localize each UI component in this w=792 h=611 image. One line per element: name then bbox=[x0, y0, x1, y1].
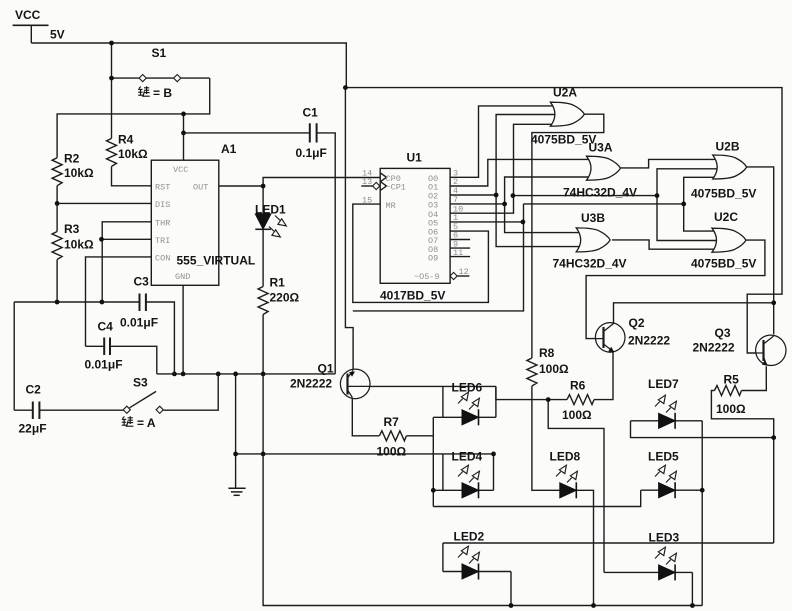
wire: R7 node down to LED4 row bbox=[432, 436, 434, 507]
svg-text:U2C: U2C bbox=[714, 210, 738, 224]
LED LED5 bbox=[659, 482, 676, 498]
wire: LED1 anode bbox=[262, 186, 264, 214]
wire: U2B output down right edge bbox=[747, 167, 774, 334]
resistor R4 bbox=[107, 138, 117, 166]
svg-text:S1: S1 bbox=[152, 46, 167, 60]
node junction Q2 collector / U2B output bbox=[771, 300, 776, 305]
capacitor C2 bbox=[32, 402, 34, 420]
wire: ground stem bbox=[235, 374, 237, 488]
wire: C2 to S3 bbox=[39, 409, 123, 411]
wire: LED7 anode drop and under-rail bbox=[631, 421, 774, 438]
svg-text:100Ω: 100Ω bbox=[377, 445, 407, 459]
svg-text:VCC: VCC bbox=[173, 165, 188, 175]
wire: LED4 diode row bbox=[433, 489, 493, 491]
node junction 555 OUT node bbox=[261, 184, 266, 189]
label key=B bbox=[138, 86, 150, 96]
wire: Q1 emitter to R7 bbox=[352, 398, 379, 436]
svg-text:22μF: 22μF bbox=[19, 422, 47, 436]
wire: R6 junction down to LED3 feed bbox=[548, 400, 604, 573]
svg-text:220Ω: 220Ω bbox=[270, 291, 300, 305]
wire: mid ground rail y=373.9 bbox=[157, 373, 335, 375]
wire: OUT pin bbox=[219, 185, 263, 187]
svg-text:MR: MR bbox=[386, 201, 396, 211]
op-amp/timer A1 555 box bbox=[151, 160, 219, 285]
wire: 555 GND pin down bbox=[182, 285, 184, 374]
pin 15 MR wire loop from O6 bbox=[353, 204, 489, 302]
node junction 555 VCC / C1 bbox=[181, 131, 186, 136]
wire: C4 left bbox=[86, 345, 105, 347]
svg-text:Q3: Q3 bbox=[715, 326, 731, 340]
node junction O4 net riser bbox=[511, 193, 516, 198]
node junction THR leg to C3 rail bbox=[100, 300, 105, 305]
node junction O5 net to U2B/U2C bbox=[681, 202, 686, 207]
wire: O1 to U3A in1 bbox=[450, 159, 591, 186]
wire R3 down to C3 rail bbox=[56, 260, 58, 303]
svg-text:U2B: U2B bbox=[716, 140, 740, 154]
svg-text:C2: C2 bbox=[26, 383, 42, 397]
node junction O2 net bbox=[494, 193, 499, 198]
OR gate U3A bbox=[587, 156, 621, 180]
svg-text:~O5-9: ~O5-9 bbox=[414, 272, 440, 282]
resistor R3 bbox=[52, 232, 62, 260]
wire: top VCC rail y=43 bbox=[31, 43, 346, 88]
svg-text:15: 15 bbox=[362, 195, 372, 205]
capacitor C4 bbox=[103, 338, 105, 356]
wire: LED7 diode row bbox=[631, 420, 703, 422]
svg-text:R5: R5 bbox=[724, 373, 740, 387]
LED LED4 bbox=[462, 482, 479, 498]
svg-text:4075BD_5V: 4075BD_5V bbox=[691, 187, 756, 201]
LED LED8 bbox=[560, 482, 577, 498]
node junction 555 GND on ground rail bbox=[181, 372, 186, 377]
svg-text:GND: GND bbox=[175, 272, 190, 282]
wire: R5 left big loop bbox=[711, 391, 773, 544]
node junction LED4 row feed bbox=[431, 488, 436, 493]
wire: S1 feed from VCC rail bbox=[111, 43, 113, 138]
node junction VCC top rail / S1 feed bbox=[109, 41, 114, 46]
node junction LED5 cathode bbox=[700, 488, 705, 493]
wire: mid rail y=454 bbox=[236, 453, 494, 455]
svg-text:11: 11 bbox=[453, 248, 463, 258]
node junction ground stem on rail bbox=[233, 372, 238, 377]
wire: 555 VCC feed bbox=[183, 114, 185, 160]
wire: S3 right to gnd rail bbox=[163, 374, 218, 410]
wire: O5 net to U2B in3 / U2C in1 bbox=[684, 177, 717, 204]
svg-text:CON: CON bbox=[155, 254, 170, 264]
svg-text:U3B: U3B bbox=[581, 211, 605, 225]
wire: LED5 diode row bbox=[641, 489, 703, 491]
VCC power symbol bbox=[13, 24, 49, 26]
wire: O2 to U2A in2 bbox=[450, 115, 555, 196]
clock input arrows CP0 / ~CP1 bbox=[380, 173, 386, 182]
resistor R1 bbox=[258, 287, 268, 315]
wire: U3B output to U2C in3 bbox=[612, 240, 717, 249]
svg-text:R6: R6 bbox=[570, 379, 586, 393]
svg-text:TRI: TRI bbox=[155, 236, 170, 246]
resistor R7 bbox=[379, 431, 406, 441]
svg-text:74HC32D_4V: 74HC32D_4V bbox=[553, 257, 627, 271]
resistor R2 bbox=[56, 157, 58, 159]
svg-text:555_VIRTUAL: 555_VIRTUAL bbox=[177, 254, 256, 268]
svg-text:S3: S3 bbox=[133, 376, 148, 390]
wire: top-right long rail y=87.5 bbox=[345, 88, 782, 353]
svg-text:100Ω: 100Ω bbox=[716, 402, 746, 416]
capacitor C1 bbox=[309, 123, 311, 142]
svg-text:DIS: DIS bbox=[155, 200, 170, 210]
wire: U2C output to Q2 base bbox=[586, 240, 765, 339]
pin 12 ~O5-9 stub with bubble bbox=[450, 272, 457, 279]
svg-text:13: 13 bbox=[362, 177, 372, 187]
svg-text:10kΩ: 10kΩ bbox=[64, 166, 94, 180]
svg-text:LED8: LED8 bbox=[550, 450, 581, 464]
node junction R3 to C3 rail bbox=[55, 300, 60, 305]
svg-text:LED6: LED6 bbox=[452, 381, 483, 395]
wire: left drop to C2 bbox=[13, 302, 15, 410]
wire: Q1 base to LED6 row bbox=[370, 385, 496, 387]
node junction LED3 cathode on bottom rail bbox=[690, 603, 695, 608]
wire: R8 down to LED8 bbox=[532, 386, 560, 490]
svg-text:0.01μF: 0.01μF bbox=[85, 358, 123, 372]
node junction LED7 return on R5 loop bbox=[771, 435, 776, 440]
ground bbox=[228, 487, 245, 489]
svg-text:Q2: Q2 bbox=[629, 316, 645, 330]
wire: C2 left bbox=[14, 409, 33, 411]
IC U1 4017 box bbox=[380, 168, 450, 283]
node junction LED1/R1 leg on ground rail bbox=[261, 372, 266, 377]
wire: LED2 cathode down to bottom rail bbox=[510, 572, 512, 606]
svg-text:74HC32D_4V: 74HC32D_4V bbox=[563, 186, 637, 200]
switch S1 line and contacts bbox=[112, 77, 140, 79]
wire: O5 stub bbox=[450, 221, 523, 223]
node junction ground stem on mid rail bbox=[233, 452, 238, 457]
svg-text:4017BD_5V: 4017BD_5V bbox=[380, 289, 445, 303]
svg-text:A1: A1 bbox=[221, 142, 237, 156]
transistor Q1 2N2222 bbox=[340, 369, 370, 399]
wire: O4 net to U2B in2 / U2C in2 bbox=[657, 169, 717, 196]
label key=A bbox=[122, 416, 134, 426]
wire: S1 output loop bbox=[57, 78, 210, 158]
node junction S3 leg on ground rail bbox=[216, 372, 221, 377]
wire R2 to DIS node bbox=[56, 186, 58, 232]
svg-text:0.01μF: 0.01μF bbox=[120, 316, 158, 330]
node junction O3 net bbox=[502, 202, 507, 207]
wire: R7 right riser bbox=[406, 417, 433, 436]
wire: TRI pin bbox=[102, 238, 152, 240]
svg-text:U1: U1 bbox=[407, 151, 423, 165]
wire: O4 long net y=195.6 bbox=[514, 195, 658, 197]
wire: feed across to LED5 bbox=[433, 490, 640, 506]
wire: THR pin bbox=[102, 222, 151, 302]
svg-text:LED1: LED1 bbox=[255, 203, 286, 217]
wire: C3 rail y=302 bbox=[14, 301, 139, 303]
node junction O4 net to U2B/U2C bbox=[655, 193, 660, 198]
wire: Q2 collector rail bbox=[614, 303, 774, 323]
capacitor C3 bbox=[139, 294, 141, 312]
node junction LED2 cathode on bottom rail bbox=[509, 603, 514, 608]
svg-text:LED3: LED3 bbox=[649, 531, 680, 545]
wire: LED3 cathode down to bottom rail bbox=[691, 572, 693, 605]
node junction C3 leg on ground rail bbox=[172, 372, 177, 377]
node junction R1 leg on mid rail bbox=[261, 452, 266, 457]
LED LED2 bbox=[462, 564, 479, 580]
wire: Q3 emitter to R5 bbox=[742, 366, 767, 390]
svg-text:100Ω: 100Ω bbox=[562, 408, 592, 422]
node junction S1 contact feed bbox=[109, 76, 114, 81]
svg-text:OUT: OUT bbox=[193, 183, 208, 193]
svg-text:5V: 5V bbox=[50, 28, 65, 42]
wire: C1 left wire y=133 bbox=[184, 132, 310, 134]
svg-text:C3: C3 bbox=[134, 275, 150, 289]
wire: O5 long net y=203.9 to right bbox=[524, 203, 684, 205]
wire: C4 right to gnd rail bbox=[110, 346, 157, 374]
wire: O4 riser bbox=[450, 124, 555, 213]
node junction R2-R3 / DIS bbox=[55, 201, 60, 206]
node junction LED8 cathode on bottom rail bbox=[591, 603, 596, 608]
wire: OUT to CP0 bbox=[263, 178, 380, 187]
svg-text:R7: R7 bbox=[384, 415, 400, 429]
wire: C3 right leg to gnd rail bbox=[146, 302, 175, 374]
svg-text:R4: R4 bbox=[118, 133, 134, 147]
svg-text:U3A: U3A bbox=[589, 141, 613, 155]
wire: R6 left to LED6 block bbox=[496, 387, 567, 400]
svg-text:VCC: VCC bbox=[15, 8, 41, 22]
node junction S1 output / 555 VCC bbox=[181, 112, 186, 117]
node junction VCC branch to gates area bbox=[343, 85, 348, 90]
svg-text:O9: O9 bbox=[428, 253, 438, 263]
svg-text:R8: R8 bbox=[539, 346, 555, 360]
svg-text:2N2222: 2N2222 bbox=[693, 341, 735, 355]
svg-text:12: 12 bbox=[459, 267, 469, 277]
wire: U2A output to R8 bbox=[532, 114, 604, 358]
svg-text:THR: THR bbox=[155, 219, 170, 229]
wire: CON pin down to C4 bbox=[86, 257, 152, 346]
svg-text:R3: R3 bbox=[64, 222, 80, 236]
svg-text:4075BD_5V: 4075BD_5V bbox=[691, 257, 756, 271]
wire: LED8 cathode down to bottom rail bbox=[576, 490, 593, 605]
wire: O0 to U2A in1 bbox=[450, 106, 555, 177]
svg-text:100Ω: 100Ω bbox=[539, 362, 569, 376]
node junction THR-TRI tie bbox=[99, 237, 104, 242]
svg-text:= A: = A bbox=[137, 416, 156, 430]
svg-text:RST: RST bbox=[155, 183, 170, 193]
wire: U3A output to U2B in1 bbox=[621, 159, 717, 168]
svg-text:U2A: U2A bbox=[553, 86, 577, 100]
wire: R1 down through rails to bottom rail bbox=[263, 315, 702, 606]
wire: C1 right to lower rail bbox=[317, 133, 336, 374]
resistor R5 bbox=[715, 386, 742, 396]
pin stubs O7 O8 O9 bbox=[450, 239, 470, 241]
svg-text:C4: C4 bbox=[98, 320, 114, 334]
LED LED1 (pointing down) bbox=[255, 214, 271, 229]
OR gate U2A bbox=[550, 102, 584, 126]
switch S3 lever and contacts bbox=[123, 406, 130, 413]
svg-text:~CP1: ~CP1 bbox=[386, 183, 406, 193]
svg-text:LED5: LED5 bbox=[648, 450, 679, 464]
wire: LED3 diode row bbox=[604, 571, 692, 573]
svg-text:10kΩ: 10kΩ bbox=[64, 238, 94, 252]
wire: O5 net down to MR-area rail bbox=[353, 204, 524, 311]
wire: LED6 diode row bbox=[433, 416, 496, 418]
node junction LED4 tap on mid rail bbox=[491, 452, 496, 457]
wire: LED7 cathode down through LED5 to bottom rail bbox=[701, 421, 703, 606]
OR gate U2B bbox=[713, 155, 747, 179]
svg-text:2N2222: 2N2222 bbox=[628, 334, 670, 348]
LED LED6 bbox=[462, 409, 479, 425]
svg-text:= B: = B bbox=[153, 86, 172, 100]
OR gate U2C bbox=[712, 228, 746, 252]
resistor R8 (vertical) bbox=[527, 358, 537, 386]
wire: O2 branch down to U3B in2 bbox=[496, 195, 581, 247]
svg-text:LED2: LED2 bbox=[454, 530, 485, 544]
transistor Q2 2N2222 bbox=[595, 323, 625, 353]
LED LED3 bbox=[659, 564, 676, 580]
wire: LED1 cathode to R1 bbox=[262, 229, 264, 286]
svg-text:LED4: LED4 bbox=[452, 450, 483, 464]
wire: O3 branch down to U3B in1 bbox=[505, 204, 581, 233]
pin 13 ~CP1 stub with bubble bbox=[361, 185, 373, 187]
resistor R6 bbox=[567, 395, 594, 405]
svg-text:LED7: LED7 bbox=[648, 377, 679, 391]
wire: LED2 diode row bbox=[443, 571, 511, 573]
LED LED7 bbox=[659, 413, 676, 429]
wire: Q2 emitter to R6 bbox=[594, 352, 613, 399]
svg-text:R2: R2 bbox=[64, 152, 80, 166]
svg-text:C1: C1 bbox=[303, 106, 319, 120]
svg-text:10kΩ: 10kΩ bbox=[118, 147, 148, 161]
wire: LED2 top rail to far right loop bbox=[443, 542, 774, 544]
wire R4 to RST bbox=[112, 166, 152, 185]
svg-text:Q1: Q1 bbox=[318, 362, 334, 376]
svg-text:0.1μF: 0.1μF bbox=[296, 146, 327, 160]
transistor Q3 2N2222 bbox=[756, 335, 787, 366]
svg-text:R1: R1 bbox=[270, 276, 286, 290]
node junction O5 stub bbox=[521, 220, 526, 225]
svg-text:2N2222: 2N2222 bbox=[290, 377, 332, 391]
wire: O3 to U3A in2 bbox=[450, 177, 591, 204]
wire: DIS pin bbox=[57, 202, 151, 204]
node junction R6 tap to LED3 bbox=[546, 397, 551, 402]
wire: VCC branch down to Q1 collector bbox=[345, 88, 353, 370]
svg-text:4075BD_5V: 4075BD_5V bbox=[531, 133, 596, 147]
OR gate U3B bbox=[576, 228, 610, 252]
